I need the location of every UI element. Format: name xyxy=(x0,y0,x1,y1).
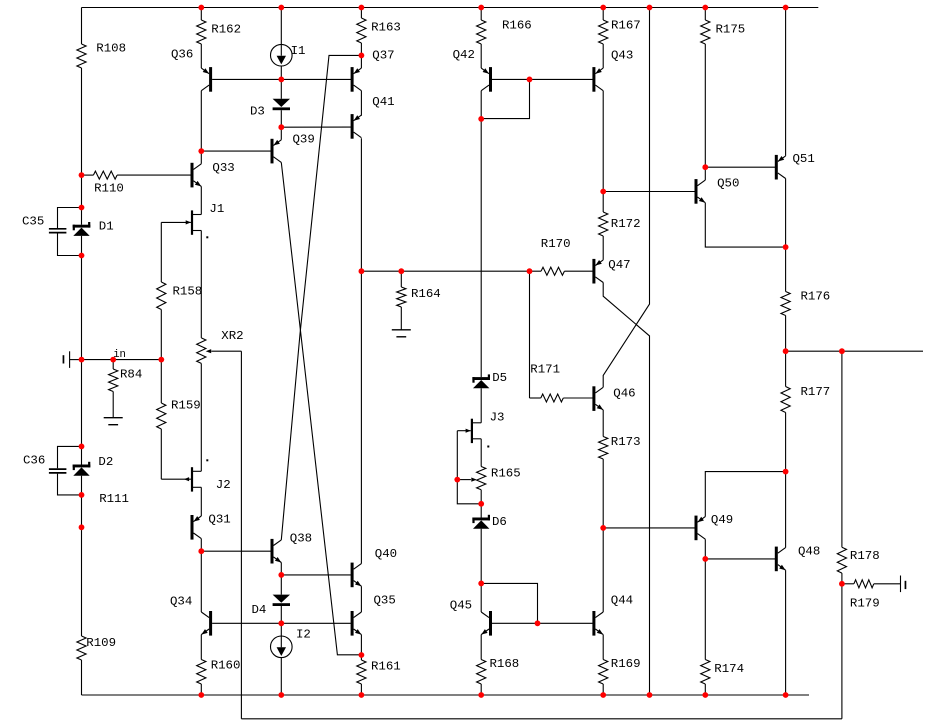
svg-text:J3: J3 xyxy=(490,411,505,425)
svg-text:R162: R162 xyxy=(211,23,241,37)
svg-text:R111: R111 xyxy=(99,492,129,506)
svg-text:in: in xyxy=(113,349,126,361)
svg-text:J2: J2 xyxy=(216,478,231,492)
svg-text:R170: R170 xyxy=(541,237,571,251)
svg-text:Q38: Q38 xyxy=(290,531,312,545)
svg-text:Q46: Q46 xyxy=(613,386,635,400)
svg-text:R160: R160 xyxy=(211,659,241,673)
svg-text:D5: D5 xyxy=(492,371,507,385)
svg-text:Q33: Q33 xyxy=(212,161,234,175)
svg-text:R177: R177 xyxy=(801,385,831,399)
svg-text:R173: R173 xyxy=(611,435,641,449)
svg-text:I1: I1 xyxy=(291,44,306,58)
svg-text:R110: R110 xyxy=(94,182,124,196)
svg-text:Q44: Q44 xyxy=(611,593,633,607)
svg-text:Q37: Q37 xyxy=(372,49,394,63)
svg-text:Q36: Q36 xyxy=(171,48,193,62)
svg-text:R161: R161 xyxy=(371,660,401,674)
svg-text:R108: R108 xyxy=(96,42,126,56)
svg-text:R169: R169 xyxy=(611,657,641,671)
svg-text:Q42: Q42 xyxy=(453,48,475,62)
svg-text:R175: R175 xyxy=(716,22,746,36)
svg-text:Q43: Q43 xyxy=(611,49,633,63)
svg-text:R167: R167 xyxy=(611,19,641,33)
svg-text:Q31: Q31 xyxy=(208,513,230,527)
svg-text:Q39: Q39 xyxy=(293,133,315,147)
svg-text:R159: R159 xyxy=(171,398,201,412)
svg-text:R165: R165 xyxy=(491,467,521,481)
svg-text:D6: D6 xyxy=(492,515,507,529)
svg-text:Q45: Q45 xyxy=(450,598,472,612)
svg-text:Q34: Q34 xyxy=(170,595,192,609)
svg-text:Q40: Q40 xyxy=(375,547,397,561)
svg-text:R158: R158 xyxy=(173,284,203,298)
svg-text:R164: R164 xyxy=(411,287,441,301)
svg-text:R179: R179 xyxy=(850,597,880,611)
svg-text:J1: J1 xyxy=(209,202,224,216)
svg-text:R172: R172 xyxy=(611,217,641,231)
svg-text:Q50: Q50 xyxy=(717,177,739,191)
svg-text:C36: C36 xyxy=(23,454,45,468)
svg-text:XR2: XR2 xyxy=(221,329,243,343)
svg-text:D1: D1 xyxy=(99,220,114,234)
svg-text:R166: R166 xyxy=(502,19,532,33)
svg-text:C35: C35 xyxy=(22,215,44,229)
svg-text:Q41: Q41 xyxy=(372,95,394,109)
svg-text:R176: R176 xyxy=(801,289,831,303)
svg-text:Q51: Q51 xyxy=(793,152,815,166)
svg-text:Q49: Q49 xyxy=(711,513,733,527)
svg-text:R109: R109 xyxy=(86,636,116,650)
svg-text:Q35: Q35 xyxy=(374,593,396,607)
svg-text:Q47: Q47 xyxy=(608,258,630,272)
svg-text:D4: D4 xyxy=(252,603,267,617)
svg-text:R171: R171 xyxy=(530,362,560,376)
svg-text:R178: R178 xyxy=(850,549,880,563)
svg-text:R163: R163 xyxy=(371,21,401,35)
svg-text:R84: R84 xyxy=(120,368,142,382)
svg-text:D3: D3 xyxy=(250,105,265,119)
svg-text:Q48: Q48 xyxy=(798,545,820,559)
svg-text:D2: D2 xyxy=(98,455,113,469)
svg-text:R168: R168 xyxy=(490,657,520,671)
svg-text:I2: I2 xyxy=(296,628,311,642)
svg-text:R174: R174 xyxy=(714,662,744,676)
